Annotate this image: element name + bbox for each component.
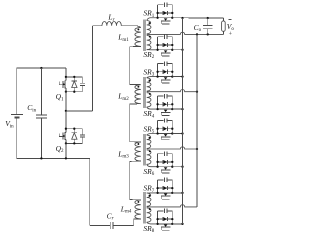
wire: SR3 output to rail A — [172, 76, 182, 78]
wire: switch node branch right — [66, 110, 93, 112]
node: SR6 output at rail A — [181, 166, 183, 168]
wire: top link to Le — [92, 25, 102, 27]
wire: bottom rail drop to Cr — [89, 158, 91, 225]
wire: SR6 output to rail A — [172, 166, 182, 168]
wire: SR8 output to rail A — [172, 223, 182, 225]
wire: series link Lm1-Lm2 — [129, 47, 131, 85]
node: SR5 output at rail A — [181, 132, 183, 134]
wire: Lm2 primary bottom lead — [130, 103, 141, 105]
wire: switch node to Q2 drain — [65, 111, 67, 129]
synchronous rectifier SR1 (MOSFET with body diode and capacitor) — [157, 5, 159, 18]
wire: Le to transformer Lm1 primary — [121, 25, 137, 27]
node: Co top junction — [207, 17, 209, 19]
wire: SR1 output to +V top rail — [172, 17, 223, 19]
node: SR4 output at rail A — [181, 108, 183, 110]
synchronous rectifier SR4 (MOSFET with body diode and capacitor) — [157, 96, 159, 109]
synchronous rectifier SR7 (MOSFET with body diode and capacitor) — [157, 180, 159, 193]
wire: T2 secondary bottom lead to SR4 — [147, 107, 158, 109]
node: Cin bottom — [40, 157, 42, 159]
transformer T1 winding Lm1 (primary, core, secondaries) — [135, 27, 141, 46]
node: rail B top junction — [196, 33, 198, 35]
wire: T2 center tap line — [147, 90, 197, 92]
synchronous rectifier SR5 (MOSFET with body diode and capacitor) — [157, 121, 159, 134]
wire: input top rail — [17, 67, 66, 69]
node: T2 center tap at rail B — [196, 91, 198, 93]
synchronous rectifier SR6 (MOSFET with body diode and capacitor) — [157, 154, 159, 167]
wire: SR5 output to rail A — [172, 133, 182, 135]
wire: T2 secondary top lead to SR3 — [147, 77, 158, 78]
wire: T4 center tap line — [147, 205, 197, 207]
capacitor Co — [207, 18, 209, 25]
wire: Lm1 primary bottom lead — [130, 45, 141, 47]
wire: T4 secondary bottom lead to SR8 — [147, 222, 158, 224]
wire: Cr riser to Lm4 bottom — [133, 219, 135, 225]
wire: input left lead (Vin top) — [16, 68, 18, 114]
wire: T3 secondary top lead to SR5 — [147, 134, 158, 136]
node: rail A top — [181, 17, 183, 19]
wire: Cin top lead — [40, 68, 42, 115]
wire: series link Lm3-Lm4 — [129, 161, 131, 199]
inductor Le — [102, 21, 121, 25]
node: Q2 source at bottom rail — [65, 157, 67, 159]
wire: SR4 output to rail A — [172, 108, 182, 110]
wire: Lm3 primary top lead — [130, 141, 141, 143]
node: Co bottom junction — [207, 33, 209, 35]
wire: T4 secondary top lead to SR7 — [147, 192, 158, 194]
capacitor Cin — [36, 114, 47, 116]
wire: series link Lm2-Lm3 — [129, 104, 131, 142]
transistor Q2 (MOSFET with body diode and capacitor) — [65, 129, 67, 133]
transformer T3 winding Lm3 — [135, 142, 141, 161]
wire: SR7 output to rail A — [172, 192, 182, 194]
node: SR3 output at rail A — [181, 75, 183, 77]
synchronous rectifier SR3 (MOSFET with body diode and capacitor) — [157, 64, 159, 77]
synchronous rectifier SR8 (MOSFET with body diode and capacitor) — [157, 211, 159, 224]
capacitor Cr — [109, 222, 111, 229]
wire: Lm2 primary top lead — [130, 83, 141, 85]
wire: rail A (+V bus) — [182, 18, 184, 224]
node: Cin top — [40, 67, 42, 69]
wire: Lm4 primary top lead — [130, 199, 141, 201]
node: SR8 output at rail A — [181, 223, 183, 225]
node: SR2 output at rail A — [181, 49, 183, 51]
wire: Cr right lead — [113, 224, 134, 226]
wire: load right vertical — [222, 18, 224, 34]
transformer T4 winding Lm4 — [135, 200, 141, 219]
wire: rail B (0V bus) — [196, 34, 198, 207]
wire: Cin bottom lead — [40, 118, 42, 158]
wire: bottom rail — [17, 157, 90, 159]
transformer T2 winding Lm2 — [135, 85, 141, 104]
wire: T1 secondary top lead to SR1 — [147, 18, 158, 21]
wire: SR2 output to rail A — [172, 49, 182, 51]
wire: T3 secondary bottom lead to SR6 — [147, 164, 158, 166]
node: T3 center tap at rail B — [196, 148, 198, 150]
node: SR7 output at rail A — [181, 192, 183, 194]
synchronous rectifier SR2 (MOSFET with body diode and capacitor) — [157, 37, 159, 50]
wire: Cr left lead — [90, 224, 110, 226]
wire: T1 secondary bottom lead to SR2 — [147, 49, 158, 51]
wire: Vin bottom lead — [16, 118, 18, 158]
voltage source Vin — [11, 114, 23, 116]
transistor Q1 (MOSFET with body diode and capacitor) — [65, 77, 67, 81]
wire: Q2 source to bottom rail — [65, 143, 67, 158]
wire: Q1 drain from top rail — [65, 68, 67, 77]
wire: Q1 source to switch node — [65, 92, 67, 111]
svg-text:+: + — [229, 31, 233, 38]
load resistor (output) — [222, 21, 226, 31]
wire: riser to Le — [91, 26, 93, 111]
wire: T3 center tap line — [147, 147, 197, 149]
label minus terminal — [229, 18, 232, 20]
node: switch node — [65, 110, 67, 112]
wire: Lm3 primary bottom lead — [130, 160, 141, 162]
wire: Lm4 primary bottom lead — [134, 218, 141, 220]
wire: T1 center tap / output 0V rail — [147, 32, 224, 34]
